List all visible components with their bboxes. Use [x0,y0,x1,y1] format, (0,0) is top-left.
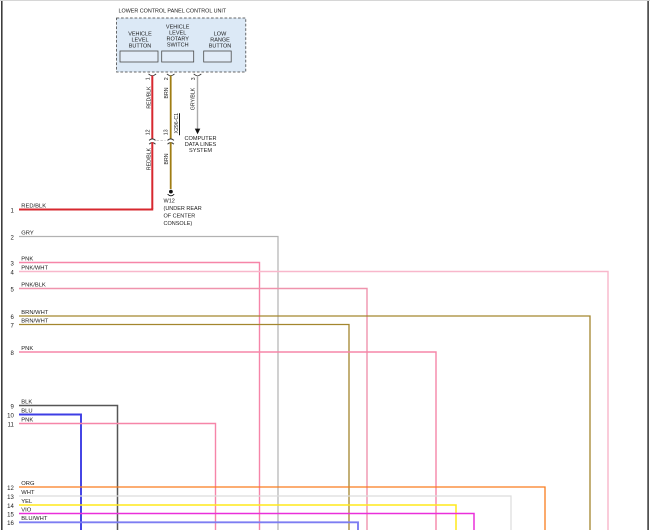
switch S2: VEHICLE LEVEL ROTARY SWITCH [162,24,194,62]
wire 9 BLK [10,399,117,530]
svg-text:RED/BLK: RED/BLK [146,86,152,109]
svg-text:SYSTEM: SYSTEM [189,148,212,154]
svg-text:(UNDER REAR: (UNDER REAR [164,206,202,212]
svg-text:12: 12 [7,486,14,492]
svg-text:DATA LINES: DATA LINES [185,142,217,148]
top page border [0,0,650,2]
svg-text:BUTTON: BUTTON [129,44,152,50]
svg-text:OF CENTER: OF CENTER [164,214,196,220]
wire GRY/BLK vertical [197,76,199,130]
svg-text:BRN: BRN [164,87,170,98]
svg-text:15: 15 [7,512,14,518]
svg-text:LEVEL: LEVEL [131,38,148,44]
wire 8 PNK [10,346,436,530]
wire BRN vertical lower segment [170,142,172,189]
svg-text:BLU/WHT: BLU/WHT [21,516,48,522]
svg-text:2: 2 [164,77,170,80]
switch S3: LOW RANGE BUTTON [204,31,232,62]
svg-text:ORG: ORG [21,481,35,487]
svg-text:BLU: BLU [21,408,32,414]
svg-text:PNK/BLK: PNK/BLK [21,282,46,288]
svg-text:BUTTON: BUTTON [209,44,232,50]
connector break on BRN wire [168,139,174,141]
svg-text:BRN: BRN [164,153,170,164]
wire 15 VIO [7,507,474,530]
connector fork pin 1 [149,74,157,76]
connector link dash [157,139,166,141]
svg-text:LOW: LOW [214,31,227,37]
svg-text:14: 14 [7,504,14,510]
svg-text:10: 10 [7,413,14,419]
svg-text:YEL: YEL [21,499,33,505]
splice W12 symbol [169,190,173,194]
svg-text:ROTARY: ROTARY [166,37,189,43]
svg-text:BRN/WHT: BRN/WHT [21,310,49,316]
wire 16 BLU/WHT [7,516,358,530]
wire 10 BLU [7,408,81,530]
wire RED/BLK vertical lower segment [151,142,153,208]
svg-text:13: 13 [7,495,14,501]
svg-text:3: 3 [191,77,197,80]
wire 1 RED/BLK horizontal [10,203,152,214]
wire 3 PNK [10,256,259,530]
connector fork pin 3 [194,74,202,76]
svg-text:16: 16 [7,521,14,527]
wire 6 BRN/WHT [10,310,590,530]
svg-text:LEVEL: LEVEL [169,30,186,36]
svg-text:1: 1 [146,77,152,80]
svg-text:PNK/WHT: PNK/WHT [21,265,48,271]
connector fork pin 2 [167,74,175,76]
svg-text:PNK: PNK [21,256,33,262]
svg-text:11: 11 [8,422,15,428]
svg-text:PNK: PNK [21,346,33,352]
wire 14 YEL [7,499,456,530]
control unit U1: LOWER CONTROL PANEL CONTROL UNIT [117,9,246,72]
svg-text:COMPUTER: COMPUTER [184,136,216,142]
wire 12 ORG [7,481,545,530]
svg-text:SWITCH: SWITCH [167,43,189,49]
svg-text:BRN/WHT: BRN/WHT [21,318,49,324]
connector break on RED/BLK wire [149,139,155,141]
svg-text:WHT: WHT [21,490,35,496]
svg-text:RANGE: RANGE [210,38,230,44]
switch S1: VEHICLE LEVEL BUTTON [120,31,158,62]
svg-text:LOWER CONTROL PANEL CONTROL UN: LOWER CONTROL PANEL CONTROL UNIT [119,9,227,15]
svg-text:13: 13 [163,129,169,135]
svg-text:RED/BLK: RED/BLK [21,203,46,209]
svg-text:CONSOLE): CONSOLE) [164,221,193,227]
svg-text:VIO: VIO [21,507,31,513]
svg-text:GRY: GRY [21,230,34,236]
wire 5 PNK/BLK [10,282,367,530]
arrow to computer data lines [195,129,201,135]
wire 13 WHT [7,490,511,530]
wire 2 GRY [10,230,278,530]
wire 7 BRN/WHT [10,318,349,530]
wire 4 PNK/WHT [10,265,608,530]
left page border [1,0,3,530]
svg-text:VEHICLE: VEHICLE [128,31,152,37]
wire BRN vertical upper segment [170,76,172,139]
svg-text:12: 12 [146,129,152,135]
svg-text:PNK: PNK [21,417,33,423]
svg-text:BLK: BLK [21,399,32,405]
wire 11 PNK [8,417,216,530]
right page border [647,0,649,530]
svg-text:RED/BLK: RED/BLK [146,147,152,170]
svg-text:W12: W12 [164,199,175,205]
svg-text:VEHICLE: VEHICLE [166,24,190,30]
svg-text:GRY/BLK: GRY/BLK [191,87,197,110]
wire RED/BLK vertical upper segment [151,76,153,139]
